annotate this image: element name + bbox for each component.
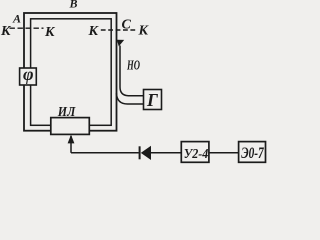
svg-text:К: К [88, 24, 100, 39]
wire: horizontal feed line [71, 152, 139, 154]
wire: pickup tube upper line to box G [120, 46, 144, 96]
box IL (radiator, in bottom wall) [51, 118, 90, 135]
box F (phase shifter, in left wall) [20, 68, 37, 85]
node A: section dashed line K-K [10, 27, 44, 29]
wire: inner wall of measuring loop [31, 19, 112, 126]
wire: outer wall of measuring loop [24, 13, 117, 131]
svg-text:φ: φ [23, 64, 34, 84]
coupler wedge at node C (pickup horn) [117, 40, 124, 47]
svg-text:Г: Г [146, 90, 158, 110]
svg-text:У2-4: У2-4 [184, 147, 209, 162]
svg-text:В: В [69, 0, 78, 11]
diode arrow triangle [141, 146, 151, 160]
svg-text:ИЛ: ИЛ [57, 105, 76, 120]
svg-text:К: К [44, 25, 56, 40]
wire: U2-4 to EO-7 [209, 152, 239, 154]
svg-text:А: А [12, 12, 21, 26]
diode arrow (direction marker) cathode bar [139, 146, 141, 159]
node C: section dashed line K-K [101, 29, 136, 31]
svg-text:К: К [138, 24, 150, 39]
svg-text:С: С [122, 18, 132, 33]
svg-text:НО: НО [126, 59, 140, 74]
wire: feed line from amplifier up into IL [70, 136, 72, 153]
wire: pickup tube lower line to box G [116, 93, 144, 104]
arrowhead into IL [68, 135, 75, 144]
wire: diode to U2-4 [151, 152, 181, 154]
box G (microphone/indicator) [144, 90, 162, 110]
svg-text:К: К [0, 24, 12, 39]
box U2-4 (amplifier) [181, 142, 209, 163]
box EO-7 (oscilloscope) [239, 142, 266, 163]
svg-text:Э0-7: Э0-7 [241, 145, 264, 162]
